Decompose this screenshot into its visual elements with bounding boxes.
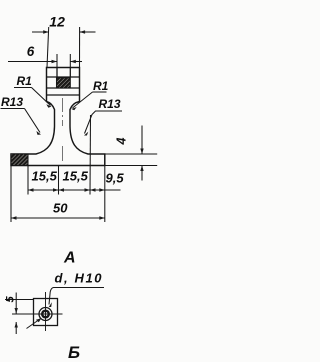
svg-text:15,5: 15,5 xyxy=(32,169,58,184)
R1 right leader xyxy=(93,91,107,93)
dim 4 lower arrow line xyxy=(141,166,143,181)
svg-text:A: A xyxy=(63,250,76,267)
svg-text:R1: R1 xyxy=(93,79,109,93)
dim 5 extension line (square top extended) xyxy=(5,299,34,301)
R13 right leader xyxy=(85,111,123,134)
base surface lines extended right for thickness dim xyxy=(105,153,157,155)
head slot right edge xyxy=(69,68,71,78)
svg-text:4: 4 xyxy=(115,138,129,146)
dim 50 line xyxy=(11,217,105,219)
extension line x28 (hatch edge) xyxy=(27,166,29,195)
extension line x58.5 xyxy=(58,166,60,195)
hole centerline vertical xyxy=(45,292,47,331)
head groove line 1 xyxy=(47,76,80,78)
dim 4 upper arrow line xyxy=(141,126,143,155)
dim row 15,5 / 15,5 / 9,5 xyxy=(28,189,121,191)
svg-text:R13: R13 xyxy=(99,97,121,111)
svg-text:Б: Б xyxy=(68,343,80,362)
R1 left leader xyxy=(14,87,32,89)
lower view square xyxy=(34,299,58,326)
svg-text:6: 6 xyxy=(27,44,35,59)
svg-text:R1: R1 xyxy=(17,74,33,88)
svg-text:5: 5 xyxy=(5,296,17,303)
view direction arrow lower-left xyxy=(27,319,41,329)
extension line x104.8 (base right edge extended) xyxy=(104,154,106,222)
hole outer circle xyxy=(39,308,52,321)
svg-text:d, H10: d, H10 xyxy=(55,271,104,286)
dim 6 extension lines xyxy=(56,54,58,68)
leader d,H10 with underline shelf xyxy=(49,288,104,305)
dim 6 line and arrows xyxy=(8,61,57,63)
svg-text:50: 50 xyxy=(53,201,68,216)
dim 5 arrow lines xyxy=(15,293,17,314)
head slot left edge xyxy=(56,68,58,78)
extension line x90 (from fillet, crossing base) xyxy=(89,115,92,195)
svg-text:15,5: 15,5 xyxy=(63,169,89,184)
svg-text:12: 12 xyxy=(49,13,65,29)
R13 left leader xyxy=(1,108,25,110)
base left hatched section xyxy=(11,154,28,166)
dim 12 line and arrows xyxy=(32,31,49,33)
svg-text:9,5: 9,5 xyxy=(106,171,125,186)
head groove line 2 xyxy=(47,87,80,89)
vertical centerline of part xyxy=(62,98,64,161)
extension line x11 (base left edge extended) xyxy=(10,166,12,222)
part outline T-profile section xyxy=(11,68,105,166)
dim 12 extension lines xyxy=(47,27,49,68)
head groove hatched section xyxy=(57,78,71,88)
head groove line 3 xyxy=(47,94,80,96)
hole inner ring xyxy=(42,311,49,318)
hole centerline horizontal xyxy=(12,313,63,315)
svg-text:R13: R13 xyxy=(1,95,23,109)
